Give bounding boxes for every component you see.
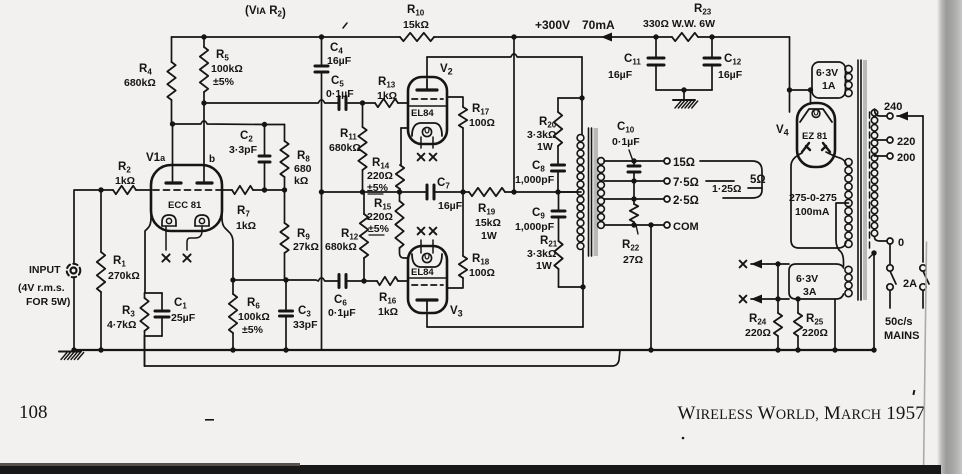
capacitor C3 bbox=[280, 305, 319, 331]
svg-text:kΩ: kΩ bbox=[294, 175, 308, 187]
label (VIA R2) bbox=[245, 5, 286, 20]
svg-text:1,000pF: 1,000pF bbox=[515, 221, 555, 233]
valve V2 heater leads bbox=[421, 137, 433, 148]
valve V1 heater leads bbox=[166, 226, 202, 250]
wire 220 tap bbox=[875, 139, 887, 141]
svg-text:220: 220 bbox=[897, 136, 915, 148]
wire V1a cathode bbox=[145, 212, 163, 311]
svg-text:R4: R4 bbox=[139, 63, 152, 77]
svg-text:+300V: +300V bbox=[535, 18, 570, 32]
wire R11 leads bbox=[362, 103, 364, 191]
svg-text:1kΩ: 1kΩ bbox=[115, 175, 135, 187]
ground PSU bbox=[673, 100, 698, 108]
wire OT centre tap bbox=[558, 191, 577, 193]
label V1b bbox=[209, 154, 215, 165]
valve V2 box line bbox=[408, 105, 447, 107]
svg-text:680kΩ: 680kΩ bbox=[329, 142, 361, 154]
wire 0 to fuse bbox=[889, 245, 891, 265]
wire 7.5 ohm line bbox=[604, 178, 664, 183]
svg-text:1kΩ: 1kΩ bbox=[378, 306, 398, 318]
wire screen earth bbox=[869, 250, 877, 352]
svg-text:220Ω: 220Ω bbox=[367, 211, 393, 223]
svg-text:R12: R12 bbox=[341, 228, 359, 242]
svg-text:1W: 1W bbox=[536, 260, 552, 272]
resistor R21 bbox=[527, 235, 563, 272]
svg-text:V3: V3 bbox=[450, 305, 463, 319]
svg-text:4·7kΩ: 4·7kΩ bbox=[107, 319, 136, 331]
fuse 2A bbox=[887, 265, 929, 290]
resistor R5 bbox=[200, 37, 243, 92]
svg-text:WIRELESS WORLD, MARCH 1957: WIRELESS WORLD, MARCH 1957 bbox=[678, 403, 925, 424]
svg-text:R16: R16 bbox=[379, 292, 397, 306]
wire input to ground bbox=[71, 278, 76, 353]
output transformer primary bbox=[577, 135, 584, 250]
valve V3 anode bbox=[417, 300, 437, 311]
svg-text:1W: 1W bbox=[481, 230, 497, 242]
wire R25 leads bbox=[795, 299, 800, 353]
resistor R9 bbox=[280, 223, 319, 253]
svg-text:680: 680 bbox=[294, 163, 312, 175]
svg-text:5Ω: 5Ω bbox=[750, 174, 766, 186]
svg-text:100Ω: 100Ω bbox=[469, 117, 495, 129]
resistor R17 bbox=[459, 103, 495, 129]
wire HT winding loop bbox=[791, 152, 846, 248]
terminal 240 bbox=[884, 101, 902, 119]
svg-text:MAINS: MAINS bbox=[884, 330, 919, 342]
wire HT centre tap bbox=[836, 203, 849, 266]
wire 200 tap bbox=[875, 155, 887, 157]
terminal 2.5 ohm bbox=[664, 195, 699, 207]
wire R23 node left bbox=[655, 37, 657, 90]
wire heater upper bbox=[751, 260, 789, 269]
wire R18 screen lead bbox=[447, 192, 463, 288]
label 1.25 ohm bbox=[712, 183, 741, 195]
svg-text:6·3V: 6·3V bbox=[796, 273, 818, 285]
resistor R3 bbox=[107, 298, 149, 331]
heater pin X upper bbox=[740, 261, 747, 268]
svg-text:100kΩ: 100kΩ bbox=[238, 311, 270, 323]
svg-text:±5%: ±5% bbox=[242, 324, 264, 336]
svg-text:C10: C10 bbox=[617, 121, 635, 135]
svg-text:R18: R18 bbox=[472, 253, 490, 267]
wire R20 C8 branch bbox=[558, 95, 585, 192]
wire +300V rail bbox=[172, 33, 790, 42]
svg-text:(VIA R2): (VIA R2) bbox=[245, 5, 286, 20]
svg-text:R9: R9 bbox=[297, 228, 310, 242]
output transformer core bbox=[589, 128, 599, 256]
wire V1b cathode bbox=[222, 212, 236, 283]
svg-text:680kΩ: 680kΩ bbox=[124, 77, 156, 89]
valve V1 label bbox=[168, 200, 202, 211]
svg-text:1,000pF: 1,000pF bbox=[515, 174, 555, 186]
resistor R7 bbox=[232, 186, 256, 232]
valve V2 cathode bbox=[412, 123, 442, 137]
svg-text:33pF: 33pF bbox=[293, 319, 318, 331]
svg-text:C7: C7 bbox=[437, 177, 450, 191]
svg-text:R5: R5 bbox=[216, 49, 229, 63]
svg-text:V1a: V1a bbox=[146, 152, 166, 164]
svg-text:15Ω: 15Ω bbox=[673, 157, 695, 169]
wire R24 leads bbox=[775, 264, 780, 353]
resistor R2 bbox=[113, 161, 136, 194]
resistor R8 bbox=[280, 141, 311, 187]
svg-text:1·25Ω: 1·25Ω bbox=[712, 183, 741, 195]
wire R3 C1 bottom bbox=[145, 317, 163, 366]
svg-text:200: 200 bbox=[897, 152, 915, 164]
svg-text:INPUT: INPUT bbox=[29, 264, 61, 276]
svg-text:R24: R24 bbox=[749, 313, 767, 327]
capacitor C7 bbox=[427, 177, 463, 212]
wire COM to ground rail bbox=[648, 225, 653, 353]
svg-text:C8: C8 bbox=[532, 160, 545, 174]
wire V2 anode line bbox=[427, 54, 582, 134]
svg-text:EL84: EL84 bbox=[411, 108, 434, 119]
svg-text:27kΩ: 27kΩ bbox=[293, 241, 319, 253]
svg-text:3·3kΩ: 3·3kΩ bbox=[527, 129, 556, 141]
valve V3 heater pins X bbox=[418, 228, 437, 235]
wire C2 R8 leads bbox=[265, 125, 285, 224]
svg-text:R3: R3 bbox=[122, 305, 135, 319]
svg-text:R2: R2 bbox=[118, 161, 131, 175]
label V3 bbox=[450, 305, 463, 319]
resistor R13 bbox=[375, 76, 398, 107]
valve V3 cathode bbox=[412, 253, 442, 267]
svg-text:±5%: ±5% bbox=[213, 76, 235, 88]
svg-text:1kΩ: 1kΩ bbox=[377, 90, 397, 102]
svg-text:3·3kΩ: 3·3kΩ bbox=[527, 248, 556, 260]
wire R6 C3 leads bbox=[230, 280, 288, 353]
mains screen bbox=[869, 112, 871, 252]
resistor R24 bbox=[745, 313, 782, 339]
valve V1 grid dashes bbox=[153, 189, 222, 191]
valve V1 ECC81 envelope bbox=[151, 165, 222, 231]
ground input bbox=[59, 352, 84, 360]
valve V2 anode bbox=[417, 79, 437, 90]
svg-text:2·5Ω: 2·5Ω bbox=[673, 195, 699, 207]
page edge crease bbox=[924, 242, 927, 474]
svg-text:R19: R19 bbox=[478, 203, 496, 217]
capacitor C8 bbox=[515, 160, 565, 186]
svg-text:R10: R10 bbox=[407, 4, 425, 18]
wire 240 tap bbox=[875, 109, 924, 121]
wire V1b grid line bbox=[222, 187, 287, 192]
terminal 0 bbox=[887, 237, 904, 249]
wire input to grid bbox=[74, 187, 151, 352]
svg-text:V4: V4 bbox=[776, 124, 789, 138]
wire C9 R21 branch bbox=[559, 192, 586, 290]
svg-text:R20: R20 bbox=[539, 116, 557, 130]
label V4 bbox=[776, 124, 789, 138]
resistor R20 bbox=[527, 112, 562, 153]
terminal 15 ohm bbox=[664, 157, 695, 169]
wire R17 screen lead bbox=[447, 97, 463, 192]
resistor R6 bbox=[229, 294, 270, 336]
valve V3 envelope bbox=[408, 246, 447, 313]
mains transformer core bbox=[858, 60, 867, 300]
valve V4 label bbox=[802, 131, 828, 142]
svg-text:EL84: EL84 bbox=[411, 267, 434, 278]
svg-text:270kΩ: 270kΩ bbox=[108, 270, 140, 282]
winding 6.3V 1A bbox=[812, 62, 852, 98]
capacitor C12 bbox=[704, 53, 743, 81]
resistor R23 bbox=[643, 3, 715, 41]
svg-text:R11: R11 bbox=[340, 128, 357, 142]
svg-text:25µF: 25µF bbox=[171, 312, 196, 324]
svg-text:b: b bbox=[209, 154, 215, 165]
svg-text:100mA: 100mA bbox=[795, 206, 830, 218]
wire 5 ohm bracket bbox=[700, 161, 762, 198]
svg-text:C2: C2 bbox=[240, 130, 253, 144]
page number 108 bbox=[19, 402, 48, 423]
label 5 ohm bbox=[750, 174, 766, 186]
wire V2 cathode left bbox=[401, 127, 408, 129]
capacitor C5 bbox=[326, 75, 354, 110]
svg-text:108: 108 bbox=[19, 402, 48, 423]
wire 15 ohm line bbox=[604, 158, 664, 163]
svg-text:220Ω: 220Ω bbox=[367, 170, 393, 182]
svg-text:220Ω: 220Ω bbox=[745, 327, 771, 339]
svg-text:6·3V: 6·3V bbox=[816, 67, 838, 79]
svg-text:COM: COM bbox=[673, 221, 699, 233]
svg-text:R7: R7 bbox=[237, 205, 250, 219]
svg-text:R22: R22 bbox=[622, 239, 640, 253]
svg-text:±5%: ±5% bbox=[368, 223, 390, 235]
terminal COM bbox=[664, 221, 699, 233]
valve V3 box line bbox=[408, 277, 447, 279]
svg-text:50c/s: 50c/s bbox=[885, 316, 913, 328]
wire C11 C12 ground link bbox=[656, 87, 712, 100]
wire C4 branch bbox=[321, 37, 323, 350]
svg-text:±5%: ±5% bbox=[367, 182, 389, 194]
svg-text:V2: V2 bbox=[440, 63, 453, 77]
terminal 7.5 ohm bbox=[664, 177, 699, 189]
svg-text:16µF: 16µF bbox=[608, 69, 633, 81]
svg-text:220Ω: 220Ω bbox=[802, 327, 828, 339]
svg-text:R15: R15 bbox=[374, 198, 392, 212]
terminal 220 bbox=[887, 136, 915, 148]
stray mark bbox=[205, 390, 915, 439]
resistor R25 bbox=[794, 313, 828, 339]
wire cathode return line bbox=[145, 336, 621, 366]
wire bias line bbox=[319, 189, 581, 194]
wire R23 node right bbox=[711, 37, 713, 90]
svg-text:R1: R1 bbox=[113, 255, 126, 269]
wire V1b anode line bbox=[201, 92, 408, 165]
svg-text:16µF: 16µF bbox=[718, 69, 743, 81]
svg-text:(4V r.m.s.: (4V r.m.s. bbox=[18, 282, 65, 294]
svg-text:C9: C9 bbox=[532, 207, 545, 221]
svg-text:3A: 3A bbox=[803, 286, 817, 298]
capacitor C1 bbox=[155, 297, 196, 324]
svg-text:0·1µF: 0·1µF bbox=[328, 307, 356, 319]
svg-text:R25: R25 bbox=[806, 313, 824, 327]
resistor R16 bbox=[377, 277, 398, 318]
wire R14 leads bbox=[400, 128, 401, 192]
resistor R14 bbox=[367, 157, 404, 194]
label V1a bbox=[146, 152, 166, 164]
label V2 bbox=[440, 63, 453, 77]
valve V2 grid dashes bbox=[412, 98, 443, 100]
resistor R22 bbox=[622, 204, 643, 266]
svg-text:0·1µF: 0·1µF bbox=[326, 88, 354, 100]
svg-text:100kΩ: 100kΩ bbox=[211, 63, 243, 75]
wire 2.5 ohm line bbox=[604, 196, 664, 201]
svg-text:1W: 1W bbox=[537, 141, 553, 153]
svg-text:100Ω: 100Ω bbox=[469, 267, 495, 279]
svg-text:240: 240 bbox=[884, 101, 902, 113]
capacitor C10 bbox=[612, 121, 640, 172]
capacitor C4 bbox=[315, 23, 352, 72]
svg-text:R23: R23 bbox=[694, 3, 712, 17]
wire 0 tap bbox=[875, 237, 887, 241]
resistor R19 bbox=[469, 188, 505, 242]
terminal 200 bbox=[887, 152, 915, 164]
svg-text:680kΩ: 680kΩ bbox=[325, 241, 357, 253]
valve V3 heater leads bbox=[421, 240, 433, 253]
resistor R18 bbox=[459, 253, 495, 279]
wire +300V feed to bias line bbox=[513, 37, 515, 192]
svg-text:330Ω W.W. 6W: 330Ω W.W. 6W bbox=[643, 18, 715, 30]
output transformer secondary bbox=[598, 158, 605, 229]
svg-text:15kΩ: 15kΩ bbox=[403, 19, 429, 31]
valve V3 grid dashes bbox=[412, 284, 443, 286]
valve V4 anodes bbox=[802, 143, 830, 152]
wire R9 leads bbox=[284, 253, 286, 280]
svg-text:1kΩ: 1kΩ bbox=[236, 220, 256, 232]
wire rectifier output bbox=[787, 37, 813, 112]
capacitor C9 bbox=[515, 207, 565, 233]
resistor R15 bbox=[367, 198, 404, 248]
valve V4 heater dome bbox=[800, 109, 832, 122]
capacitor C6 bbox=[328, 275, 356, 320]
wire C10 R22 branch bbox=[633, 161, 635, 225]
wire R15 leads bbox=[400, 192, 409, 258]
valve V2 heater pins X bbox=[418, 154, 437, 161]
wire heater return bbox=[832, 299, 837, 353]
svg-text:R6: R6 bbox=[247, 297, 260, 311]
svg-text:275-0-275: 275-0-275 bbox=[789, 192, 837, 204]
wire V1b cathode line y280 bbox=[233, 277, 408, 283]
valve V1 heater pins X bbox=[162, 254, 190, 261]
svg-text:EZ 81: EZ 81 bbox=[802, 131, 828, 142]
svg-text:FOR 5W): FOR 5W) bbox=[26, 296, 70, 308]
svg-text:C1: C1 bbox=[174, 297, 187, 311]
resistor R12 bbox=[325, 214, 368, 258]
resistor R11 bbox=[329, 127, 367, 170]
svg-text:0·1µF: 0·1µF bbox=[612, 136, 640, 148]
capacitor C11 bbox=[608, 53, 664, 81]
svg-text:C12: C12 bbox=[724, 53, 742, 67]
svg-text:C3: C3 bbox=[298, 305, 311, 319]
wire COM line bbox=[604, 222, 664, 227]
svg-text:15kΩ: 15kΩ bbox=[475, 217, 501, 229]
footer Wireless World March 1957 bbox=[678, 403, 925, 424]
svg-text:R17: R17 bbox=[472, 103, 490, 117]
svg-text:1A: 1A bbox=[822, 80, 836, 92]
input terminal bbox=[18, 264, 80, 308]
svg-text:27Ω: 27Ω bbox=[623, 254, 643, 266]
label 50c/s mains bbox=[884, 316, 919, 342]
resistor R1 bbox=[97, 252, 140, 292]
svg-text:7·5Ω: 7·5Ω bbox=[673, 177, 699, 189]
winding 6.3V 3A bbox=[789, 264, 852, 299]
svg-text:0: 0 bbox=[898, 237, 904, 249]
svg-text:R13: R13 bbox=[378, 76, 396, 90]
svg-text:R21: R21 bbox=[540, 235, 558, 249]
resistor R10 bbox=[400, 4, 434, 41]
svg-text:C11: C11 bbox=[624, 53, 641, 67]
wire 240 feed bbox=[922, 116, 924, 262]
svg-text:R14: R14 bbox=[372, 157, 390, 171]
label +300V 70mA bbox=[535, 18, 615, 32]
wire ground bus bbox=[74, 349, 874, 351]
capacitor C2 bbox=[229, 130, 270, 162]
svg-text:2A: 2A bbox=[903, 278, 917, 290]
svg-text:16µF: 16µF bbox=[327, 55, 352, 67]
wire V1a anode line bbox=[170, 100, 285, 165]
valve V2 label bbox=[411, 108, 434, 119]
valve V1 cathodes bbox=[162, 215, 209, 226]
valve V3 label bbox=[411, 267, 434, 278]
wire heater lower bbox=[751, 295, 801, 304]
wire R12 leads bbox=[363, 192, 365, 281]
heater pin X lower bbox=[740, 296, 747, 303]
resistor R4 bbox=[124, 37, 176, 100]
winding HT 275-0-275 bbox=[789, 159, 852, 248]
svg-text:C5: C5 bbox=[331, 75, 344, 89]
svg-text:3·3pF: 3·3pF bbox=[229, 144, 258, 156]
valve V4 envelope bbox=[797, 103, 835, 167]
svg-text:16µF: 16µF bbox=[438, 200, 463, 212]
wire V3 anode line bbox=[427, 250, 583, 327]
valve V2 envelope bbox=[408, 77, 447, 144]
wire mains leads bbox=[890, 291, 923, 309]
valve V1 anodes bbox=[166, 165, 212, 183]
svg-text:ECC 81: ECC 81 bbox=[168, 200, 202, 211]
svg-text:70mA: 70mA bbox=[582, 18, 615, 32]
svg-text:C6: C6 bbox=[334, 294, 347, 308]
svg-text:R8: R8 bbox=[297, 150, 310, 164]
svg-text:C4: C4 bbox=[330, 42, 343, 56]
mains primary winding bbox=[871, 110, 877, 237]
